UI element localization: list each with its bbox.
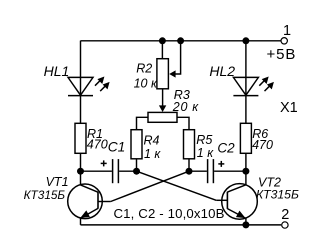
svg-text:HL2: HL2 [209, 63, 235, 79]
wire bottom rail (emitters to terminal 2) [81, 224, 282, 226]
wire R4 top to R3 left end [137, 117, 149, 129]
svg-text:1: 1 [283, 23, 291, 39]
potentiometer R3 wiper arrow from R2 [159, 89, 166, 112]
wire cross-coupling node B to VT2 base [137, 171, 217, 200]
resistor R6 [240, 123, 251, 153]
resistor R5 [184, 130, 195, 159]
wire right branch vertical (rail to R6 through HL2) [245, 41, 247, 124]
wire node B to R4 [136, 159, 138, 171]
potentiometer R3 body [148, 112, 177, 122]
wire rail to R2 top [161, 41, 163, 59]
junction VT2 emitter on bottom rail [242, 221, 249, 228]
svg-text:470: 470 [252, 138, 273, 152]
svg-text:C1: C1 [108, 140, 126, 155]
wire R6 bottom to node D [245, 153, 247, 171]
resistor R4 [131, 130, 142, 159]
svg-text:HL1: HL1 [44, 63, 70, 79]
capacitor C1 [81, 159, 137, 183]
potentiometer R2 body [157, 59, 169, 89]
terminal pin 1 (+5V) [281, 38, 287, 44]
wire left branch vertical (rail to R1 through HL1) [80, 41, 82, 124]
wire R3 right end to R5 [177, 117, 189, 129]
junction on rail for right branch [242, 37, 249, 44]
junction on rail for R2 wiper [177, 37, 184, 44]
junction node B (C1 / R4 / to VT2 base) [133, 168, 140, 175]
wire R5 bottom to node C [188, 159, 190, 171]
terminal pin 2 [282, 222, 288, 228]
resistor R1 [75, 123, 86, 153]
svg-text:R2: R2 [136, 62, 152, 76]
junction node A (VT1 collector / R1 / C1+) [77, 168, 84, 175]
transistor VT1 [68, 171, 111, 225]
svg-text:10 к: 10 к [134, 76, 158, 90]
svg-text:1 к: 1 к [197, 146, 214, 160]
svg-text:20 к: 20 к [172, 100, 199, 114]
svg-text:2: 2 [281, 207, 289, 223]
junction on rail for R2 top [159, 37, 166, 44]
svg-text:+5В: +5В [267, 46, 297, 63]
svg-text:470: 470 [87, 137, 108, 151]
transistor VT2 [216, 171, 257, 225]
svg-text:C2: C2 [217, 141, 235, 156]
svg-text:1 к: 1 к [144, 147, 161, 161]
svg-text:Х1: Х1 [280, 100, 298, 116]
junction node D (VT2 collector / R6 / C2+) [242, 168, 249, 175]
wire +5V top rail [81, 40, 281, 42]
svg-text:КТ315Б: КТ315Б [24, 188, 66, 202]
capacitor C2 [189, 159, 246, 183]
LED HL2 [233, 77, 274, 96]
svg-text:КТ315Б: КТ315Б [256, 187, 299, 201]
junction node C (C2 / R5 / to VT1 base) [186, 168, 193, 175]
svg-text:R4: R4 [144, 133, 160, 147]
svg-text:С1, С2 - 10,0х10В: С1, С2 - 10,0х10В [114, 206, 225, 221]
wire R1 bottom to node A [80, 153, 82, 171]
LED HL1 [68, 77, 110, 96]
wire rail to R2 wiper arrow [169, 41, 180, 78]
wire cross-coupling node C to VT1 base [111, 171, 189, 201]
